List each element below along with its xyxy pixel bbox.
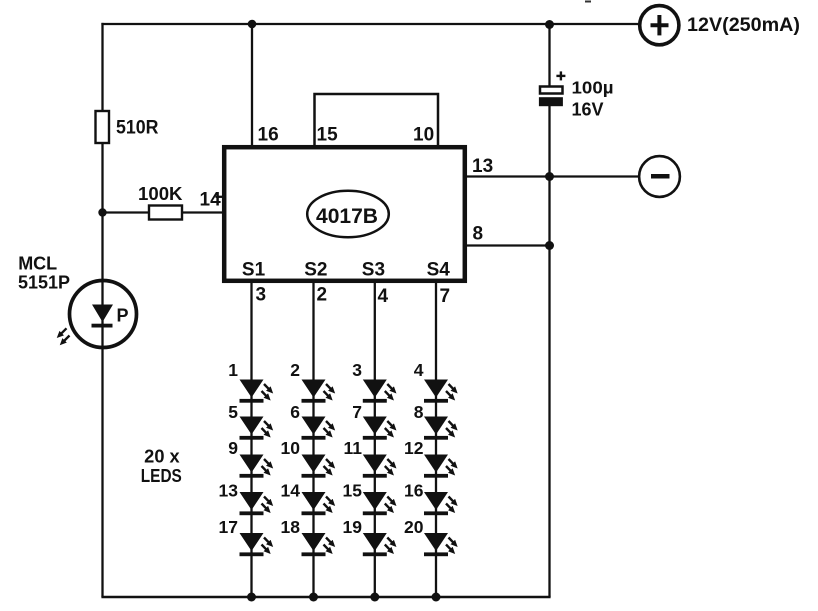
svg-text:17: 17 [219,517,238,537]
svg-text:10: 10 [413,125,434,146]
svg-text:20: 20 [404,517,424,537]
svg-text:16: 16 [258,125,279,146]
svg-text:510R: 510R [116,118,159,139]
svg-text:9: 9 [228,438,238,458]
svg-text:16: 16 [404,481,424,501]
svg-text:100µ: 100µ [572,78,614,98]
svg-text:S3: S3 [362,260,385,281]
svg-text:6: 6 [290,402,300,422]
svg-text:S1: S1 [242,260,266,281]
svg-text:100K: 100K [138,183,183,204]
svg-text:19: 19 [343,517,363,537]
svg-text:2: 2 [290,360,300,380]
svg-text:12: 12 [404,438,424,458]
svg-text:3: 3 [256,285,267,306]
svg-text:1: 1 [228,360,238,380]
svg-text:4017B: 4017B [316,205,378,228]
svg-text:S2: S2 [304,260,327,281]
svg-text:10: 10 [281,438,301,458]
svg-text:P: P [117,306,129,326]
svg-text:2: 2 [317,285,328,306]
svg-text:LEDS: LEDS [141,466,182,486]
svg-text:13: 13 [472,156,493,177]
svg-text:7: 7 [352,402,362,422]
svg-text:4: 4 [414,360,424,380]
svg-text:5: 5 [228,402,238,422]
svg-text:8: 8 [473,223,484,244]
svg-text:3: 3 [352,360,362,380]
svg-text:15: 15 [317,125,339,146]
svg-text:S4: S4 [427,260,451,281]
svg-text:20 x: 20 x [144,446,180,466]
svg-text:5151P: 5151P [18,272,70,292]
svg-text:12V(250mA): 12V(250mA) [687,15,800,36]
svg-text:MCL: MCL [18,253,57,273]
svg-text:14: 14 [200,190,222,211]
svg-text:18: 18 [281,517,301,537]
svg-text:4: 4 [378,286,389,307]
svg-text:8: 8 [414,402,424,422]
svg-text:11: 11 [344,438,363,458]
svg-text:16V: 16V [572,99,604,119]
svg-text:15: 15 [343,481,363,501]
svg-text:7: 7 [440,286,451,307]
svg-text:14: 14 [281,481,301,501]
svg-text:13: 13 [219,481,239,501]
